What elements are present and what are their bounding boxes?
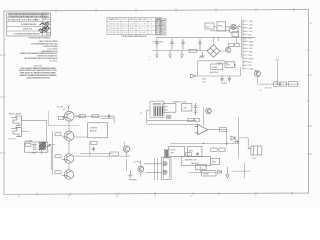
wire riser to +15 label [277,62,279,85]
voltage regulator U102 [225,62,235,68]
wires into jack panel [144,158,161,180]
svg-text:TYPICAL VOLTAGE CHART ALL VALU: TYPICAL VOLTAGE CHART ALL VALUES DC [121,35,148,38]
legend table (small dark list right of chart) [156,18,167,35]
zone tick marks top border [56,8,294,12]
capacitor C1 [107,115,111,118]
resistor R5 [79,115,86,118]
control box [25,142,48,152]
wire Q7 leads [127,159,142,177]
wire jacks to preamp [22,120,47,141]
svg-text:AC1: AC1 [249,34,252,37]
zone tick marks left border [3,55,5,153]
svg-text:BASE: BASE [129,18,136,21]
capacitor C102 [170,39,174,50]
output jack shield frame [162,157,172,179]
transistor Q5 [123,146,129,152]
shield box first stage [48,111,78,126]
capacitor inside box [32,144,37,147]
svg-text:HEATSINK: HEATSINK [210,71,220,74]
wire bus lower [147,124,199,126]
resistor R7 [91,142,97,145]
wire pot to rail [51,145,55,170]
potentiometer dark body [39,142,46,154]
wire to relay from center [238,138,248,149]
svg-text:1.4 V: 1.4 V [139,24,147,26]
notes paragraph 2 [19,65,58,79]
svg-text:.01: .01 [259,90,262,92]
wire center join [100,117,114,119]
junction dot [277,83,278,84]
svg-text:Q1 Q2 Q3: Q1 Q2 Q3 [109,24,119,26]
capacitor stack C10 [194,103,198,115]
border frame [4,10,309,195]
switch box S101 [232,32,239,37]
transistor Q101 pass [226,47,231,52]
wire transformer row [210,20,242,59]
fuse box F101 [217,22,226,31]
svg-text:11.2: 11.2 [130,32,135,34]
svg-text:SW: SW [171,152,174,154]
resistor R6 [92,115,99,118]
resistor inside box [26,144,31,147]
title block (rotated drawing title area, top-left) [7,13,51,39]
transistor Q4 [62,170,74,179]
transistor Q6 [206,108,212,114]
resistor R104 [274,82,280,86]
block box B2 [182,104,192,112]
small dark box [166,115,171,119]
wire +15 distribution [258,83,299,85]
resistor R30 [110,152,119,156]
svg-text:C: C [310,74,312,77]
wire opamp output [208,129,227,131]
svg-text:FS1: FS1 [249,62,252,64]
voltage regulator U101 [211,64,223,70]
transformer T101 primary box [205,23,214,29]
svg-text:LM340: LM340 [212,67,218,69]
svg-text:2: 2 [151,28,152,30]
ground arrow right [226,167,230,178]
connector pins [243,21,248,69]
wire connector spine [242,20,244,71]
svg-text:1 HI 2 LO: 1 HI 2 LO [8,139,16,141]
wire Q5 riser [125,142,127,156]
small box on transformer row [230,28,238,32]
wire bottom left bus [80,153,113,155]
svg-text:APPR: APPR [8,18,14,21]
svg-text:SIZE: SIZE [43,18,46,20]
svg-text:. . . . . . . .: . . . . . . . . [218,186,236,188]
resistor R106 [289,82,298,87]
svg-text:REV: REV [47,34,50,36]
ground under Q7 area [128,171,132,178]
svg-text:EMITTER: EMITTER [138,19,148,21]
wire output drop [226,132,228,146]
chassis ground diagonal [199,52,204,58]
box under tank [196,165,207,170]
svg-text:CHKD BY: CHKD BY [21,19,29,21]
resistor R101 on filter rail [189,49,197,52]
resistor R22 [219,128,226,132]
wire bridge top lead [213,37,215,44]
svg-text:GND: GND [202,79,207,81]
connector pin labels [249,21,255,71]
diode CR2 [218,170,222,174]
op-amp U2 [195,125,208,135]
resistor R3 [55,155,61,158]
svg-text:SPKR: SPKR [249,45,254,47]
wire bottom bus [170,143,238,145]
wire bridge output right [218,37,245,51]
svg-text:- - -: - - - [148,56,151,58]
wire Q1 collector right [74,116,130,156]
wire Q2 to Q3 [68,141,70,154]
lower switch box [202,171,216,176]
svg-text:AMP A7: AMP A7 [90,129,97,132]
transistor Q3 [62,154,74,163]
svg-text:3.6V: 3.6V [130,28,136,30]
capacitor C2 [92,147,95,152]
svg-text:NORM: NORM [203,173,209,175]
wire regulator rails [196,61,240,76]
voltage chart table top middle [107,18,161,38]
svg-text:C: C [1,96,3,99]
power supply section [152,20,255,59]
IC block U1 [88,123,108,138]
footswitch box FS2 [188,146,203,156]
ground [155,51,159,58]
ground [168,51,172,58]
svg-text:LUG: LUG [202,81,206,83]
ground [180,51,184,58]
resistor R20 above opamp [188,118,194,121]
svg-text:4: 4 [151,24,152,26]
parts above reverb tank [186,153,192,156]
svg-text:3.1 V: 3.1 V [139,28,147,30]
wire T2 left lead [147,110,150,123]
resistor R103 [234,44,239,47]
capacitor C104 [198,39,201,51]
svg-text:AC2: AC2 [249,37,252,40]
wire filter rail [152,50,207,52]
svg-text:21.6: 21.6 [122,32,127,34]
wire from Q102 down [257,77,259,84]
transistor Q2 [62,131,74,141]
svg-text:11.4: 11.4 [122,24,127,26]
resistor R102 series pair [228,44,233,47]
block box B1 [163,104,176,113]
transistor Q7 [138,166,144,172]
interstage transformer T2 [140,101,164,123]
aux box right of tank [211,158,220,164]
wire Q3 to Q4 [68,163,70,170]
svg-text:D: D [310,125,312,128]
supply stub above Q1 [67,105,71,112]
arrow wiper [47,145,51,148]
wire upper rail [156,36,255,38]
title block grid lines [7,13,51,36]
svg-text:MODEL 2100: MODEL 2100 [23,29,32,31]
wire Q1 to Q2 [68,121,70,131]
svg-text:FENDER MUSICAL INSTRUMENTS: FENDER MUSICAL INSTRUMENTS [29,36,52,39]
reverb jack A [163,162,167,166]
svg-text:R34: R34 [164,110,167,112]
lamp circle inside box [33,147,36,150]
capacitor C105 under rail [220,76,223,82]
transistor Q1 [62,111,74,121]
notes list (right-aligned numbered notes) [20,40,59,62]
resistor R2 [55,133,61,136]
capacitor C106 under rail [228,76,231,82]
svg-text:G 41305: G 41305 [156,34,165,36]
svg-text:D: D [1,152,3,155]
zone letters [1,22,313,199]
svg-text:REVERB: REVERB [129,180,137,182]
svg-text:T101: T101 [206,26,210,28]
svg-text:SCHEMATIC DIAGRAM: SCHEMATIC DIAGRAM [21,23,37,26]
svg-text:TRANSISTOR: TRANSISTOR [109,18,121,21]
svg-text:SOLID STATE REVERB AMPLIFIER U: SOLID STATE REVERB AMPLIFIER UNIT [14,33,40,36]
svg-text:REVERB UNIT: REVERB UNIT [185,160,198,162]
small parts right of FS2 [211,148,218,151]
junction dots on bus [203,143,204,144]
resistor R21 [195,118,200,121]
wire right rail [237,117,239,158]
title block signature scribble [39,22,50,33]
input jack J1 [11,116,22,126]
svg-text:INPUT JACKS: INPUT JACKS [9,113,22,116]
supply distribution connector J101 [243,20,254,71]
svg-text:Q7 Q8 Q9: Q7 Q8 Q9 [109,32,119,34]
footswitch box FS1 [169,146,185,156]
reverb tank box [181,157,211,166]
svg-text:Q1: Q1 [63,109,65,111]
wire osc riser [203,107,205,126]
junction dot [234,64,235,65]
capacitor C103 [181,39,184,50]
svg-text:10K 1W: 10K 1W [265,88,272,90]
svg-text:T2: T2 [140,113,142,115]
left bias rail [52,131,54,175]
svg-text:NOTES:: NOTES: [50,60,58,62]
svg-text:CBS MUSICAL INSTRUMENTS DIV: CBS MUSICAL INSTRUMENTS DIV [26,76,51,79]
resistor R105 [281,82,287,86]
svg-text:7815: 7815 [226,65,230,67]
ground symbols under filter rail [155,51,205,59]
svg-text:FS2: FS2 [249,65,252,67]
svg-text:2200UF: 2200UF [221,83,227,85]
capacitor C101 [155,39,159,50]
resistor R1 [58,116,64,119]
reverb jack B [163,170,167,174]
resistor R4 [55,171,61,174]
input jack J2 [11,127,22,136]
svg-text:2.1V: 2.1V [130,24,136,26]
bridge rectifier CR101 [207,45,220,58]
svg-text:COLL: COLL [122,19,128,21]
svg-text:TREM: TREM [249,58,254,60]
title block cell text [8,18,50,36]
svg-text:1: 1 [151,32,152,34]
svg-text:15.2: 15.2 [122,28,127,30]
plug arrow into regulator rail [191,74,196,78]
svg-text:Q4 Q5 Q6: Q4 Q5 Q6 [109,28,119,30]
svg-text:K101: K101 [252,158,256,160]
capacitor C11 [234,140,239,143]
svg-text:10.6V: 10.6V [139,32,147,34]
wire to reverb jacks [127,155,130,157]
svg-text:+15V: +15V [275,60,280,62]
relay cluster K101 [248,146,262,155]
wire bus upper [147,119,196,121]
svg-text:DWN: DWN [14,19,19,21]
zone tick marks right border [307,50,309,154]
wire tank to right [232,163,250,179]
svg-text:DRIVER: DRIVER [90,128,98,130]
reverb drive transformer dark [164,149,169,158]
zone tick marks bottom border [37,192,292,197]
pass transistor Q102 [255,70,261,77]
diode CR1 [231,136,235,140]
wire reverb return [188,166,216,173]
AC plug circle P101 [231,24,236,29]
